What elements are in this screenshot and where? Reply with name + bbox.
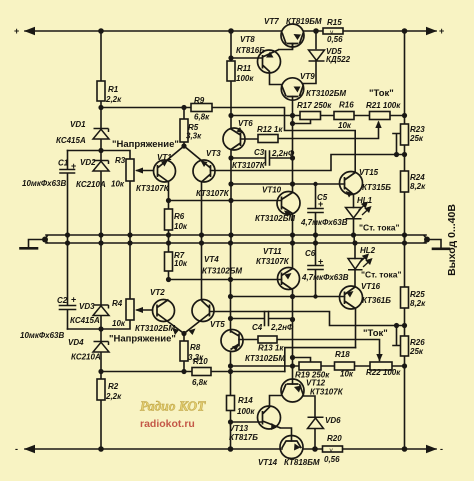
svg-text:R25: R25: [410, 290, 425, 299]
svg-text:VT13: VT13: [229, 424, 249, 433]
svg-text:8,2к: 8,2к: [410, 299, 426, 308]
svg-text:+: +: [318, 199, 323, 209]
svg-text:КТ818БМ: КТ818БМ: [284, 458, 320, 467]
svg-text:R1: R1: [108, 85, 119, 94]
svg-text:R11: R11: [237, 64, 252, 73]
svg-text:КТ3102БМ: КТ3102БМ: [135, 324, 175, 333]
svg-text:VT1: VT1: [157, 153, 172, 162]
svg-text:VT5: VT5: [210, 320, 225, 329]
svg-text:3,3к: 3,3к: [186, 132, 202, 141]
svg-text:R12 1к: R12 1к: [257, 125, 283, 134]
svg-text:10к: 10к: [174, 222, 188, 231]
svg-text:+: +: [318, 257, 323, 267]
svg-text:КТ3102БМ: КТ3102БМ: [255, 214, 295, 223]
svg-text:C3: C3: [254, 148, 265, 157]
svg-text:10к: 10к: [340, 370, 354, 379]
svg-text:100к: 100к: [236, 74, 254, 83]
svg-text:VT4: VT4: [204, 255, 219, 264]
svg-text:R9: R9: [194, 96, 205, 105]
svg-text:VD1: VD1: [70, 120, 86, 129]
svg-text:КС415А: КС415А: [56, 136, 86, 145]
svg-text:10мкФх63В: 10мкФх63В: [22, 179, 66, 188]
svg-text:R23: R23: [410, 125, 425, 134]
svg-text:КТ3107К: КТ3107К: [136, 184, 170, 193]
svg-text:-: -: [15, 444, 18, 454]
svg-text:"Ток": "Ток": [363, 328, 388, 339]
svg-text:R10: R10: [193, 357, 208, 366]
svg-text:0,56: 0,56: [327, 35, 343, 44]
svg-text:VT11: VT11: [263, 247, 282, 256]
svg-text:Радио КОТ: Радио КОТ: [140, 399, 206, 414]
svg-text:C1: C1: [58, 159, 69, 168]
svg-text:R16: R16: [339, 101, 354, 110]
svg-text:VD3: VD3: [79, 302, 95, 311]
svg-text:2,2к: 2,2к: [105, 95, 122, 104]
svg-text:VT3: VT3: [206, 149, 221, 158]
svg-text:R8: R8: [190, 343, 201, 352]
svg-text:КТ817Б: КТ817Б: [229, 433, 258, 442]
svg-text:КТ315Б: КТ315Б: [362, 183, 391, 192]
svg-text:VT12: VT12: [306, 379, 326, 388]
svg-text:R6: R6: [174, 212, 185, 221]
svg-text:VD4: VD4: [68, 338, 84, 347]
svg-text:-: -: [440, 444, 443, 454]
svg-text:КТ361Б: КТ361Б: [362, 296, 391, 305]
svg-text:R17 250к: R17 250к: [297, 101, 332, 110]
svg-text:+: +: [71, 295, 76, 305]
svg-text:2,2нФ: 2,2нФ: [270, 323, 294, 332]
svg-text:0,56: 0,56: [324, 455, 340, 464]
svg-text:25к: 25к: [409, 347, 424, 356]
svg-text:+: +: [71, 161, 76, 171]
svg-text:КТ3107К: КТ3107К: [256, 257, 290, 266]
svg-text:radiokot.ru: radiokot.ru: [140, 418, 195, 430]
svg-text:R24: R24: [410, 173, 425, 182]
svg-text:HL2: HL2: [360, 246, 376, 255]
svg-text:"Ст. тока": "Ст. тока": [359, 223, 400, 233]
svg-text:"Ст. тока": "Ст. тока": [361, 270, 402, 280]
svg-text:VT15: VT15: [359, 168, 379, 177]
svg-text:VT14: VT14: [258, 458, 278, 467]
svg-text:Выход 0...40В: Выход 0...40В: [446, 204, 458, 276]
svg-text:R13 1к: R13 1к: [258, 344, 284, 353]
svg-text:10мкФх63В: 10мкФх63В: [20, 331, 64, 340]
svg-text:VT8: VT8: [240, 35, 255, 44]
svg-text:VD6: VD6: [325, 416, 341, 425]
svg-text:R22 100к: R22 100к: [366, 368, 401, 377]
svg-text:КС210А: КС210А: [76, 180, 106, 189]
svg-text:КТ819БМ: КТ819БМ: [286, 17, 322, 26]
svg-text:6,8к: 6,8к: [194, 113, 210, 122]
svg-text:25к: 25к: [409, 134, 424, 143]
svg-text:КС210А: КС210А: [71, 353, 101, 362]
svg-text:"Напряжение": "Напряжение": [109, 334, 176, 345]
svg-text:КТ3107К: КТ3107К: [232, 161, 266, 170]
svg-text:R14: R14: [238, 396, 253, 405]
svg-text:R21 100к: R21 100к: [366, 101, 401, 110]
svg-text:КС415А: КС415А: [70, 316, 100, 325]
svg-text:HL1: HL1: [357, 196, 373, 205]
svg-text:2,2к: 2,2к: [105, 392, 122, 401]
svg-text:КТ3107К: КТ3107К: [196, 189, 230, 198]
svg-text:R26: R26: [410, 338, 425, 347]
svg-text:2,2нФ: 2,2нФ: [271, 149, 295, 158]
svg-text:КД522: КД522: [326, 55, 351, 64]
svg-text:+: +: [439, 26, 444, 36]
svg-text:R15: R15: [327, 18, 342, 27]
svg-text:C4: C4: [252, 323, 263, 332]
svg-text:"Ток": "Ток": [369, 88, 394, 99]
svg-text:VT6: VT6: [238, 119, 253, 128]
svg-text:R20: R20: [327, 434, 342, 443]
svg-text:10к: 10к: [338, 121, 352, 130]
svg-text:VT7: VT7: [264, 17, 279, 26]
svg-text:C2: C2: [57, 296, 68, 305]
svg-text:КТ3102БМ: КТ3102БМ: [306, 89, 346, 98]
svg-text:КТ3102БМ: КТ3102БМ: [245, 354, 285, 363]
svg-text:VD2: VD2: [80, 158, 96, 167]
svg-text:10к: 10к: [111, 180, 125, 189]
svg-text:КТ3102БМ: КТ3102БМ: [202, 267, 242, 276]
svg-text:8,2к: 8,2к: [410, 182, 426, 191]
svg-text:R2: R2: [108, 382, 119, 391]
svg-text:VT9: VT9: [300, 72, 315, 81]
svg-text:10к: 10к: [112, 319, 126, 328]
svg-text:R3: R3: [115, 156, 126, 165]
svg-text:"Напряжение": "Напряжение": [112, 139, 179, 150]
svg-text:R4: R4: [112, 299, 123, 308]
svg-text:4,7мкФх63В: 4,7мкФх63В: [300, 218, 348, 227]
svg-text:4,7мкФх63В: 4,7мкФх63В: [301, 273, 349, 282]
svg-text:+: +: [14, 26, 19, 36]
svg-text:КТ3107К: КТ3107К: [310, 388, 344, 397]
svg-text:10к: 10к: [174, 259, 188, 268]
svg-text:6,8к: 6,8к: [192, 378, 208, 387]
svg-text:КТ816Б: КТ816Б: [236, 46, 265, 55]
svg-text:C6: C6: [305, 249, 316, 258]
svg-text:VT2: VT2: [150, 288, 165, 297]
svg-text:VT16: VT16: [361, 282, 381, 291]
svg-text:VT10: VT10: [262, 186, 282, 195]
svg-text:100к: 100к: [237, 407, 255, 416]
svg-text:R18: R18: [335, 350, 350, 359]
